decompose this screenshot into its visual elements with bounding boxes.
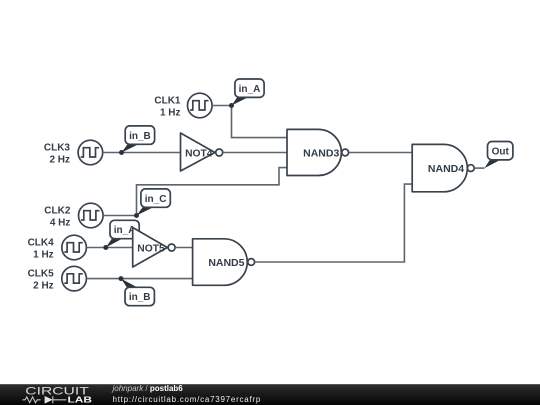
wire CLK2 to NAND3 input 3 (stepped) <box>103 168 287 216</box>
svg-text:CLK5: CLK5 <box>28 269 55 280</box>
svg-text:1 Hz: 1 Hz <box>160 108 181 119</box>
svg-text:NAND4: NAND4 <box>428 163 464 175</box>
wire NAND4 output to Out flag <box>474 167 484 169</box>
svg-text:johnpark / postlab6: johnpark / postlab6 <box>112 384 184 393</box>
NAND gate NAND5 <box>193 239 255 285</box>
label CLK4 1 Hz <box>28 238 55 261</box>
svg-text:in_C: in_C <box>145 194 167 205</box>
clock source CLK4 <box>62 235 87 260</box>
svg-text:CLK2: CLK2 <box>44 206 71 217</box>
junction dot node in_B bottom <box>119 276 124 281</box>
CircuitLab logo resistor and diode <box>23 396 67 403</box>
net flag in_B (top) <box>119 126 155 155</box>
wire CLK4 to NOT5 <box>86 247 132 249</box>
wire NAND5 output to NAND4 input 2 (stepped) <box>255 184 412 262</box>
net flag in_A (at CLK4) <box>106 220 139 247</box>
svg-text:LAB: LAB <box>68 396 93 405</box>
label CLK2 4 Hz <box>44 206 71 229</box>
svg-text:NAND3: NAND3 <box>303 147 339 159</box>
clock source CLK1 <box>188 93 213 118</box>
svg-text:in_A: in_A <box>239 84 261 95</box>
clock source CLK5 <box>62 266 87 291</box>
wire NAND3 output to NAND4 input 1 <box>349 152 412 154</box>
svg-text:NOT4: NOT4 <box>185 148 213 159</box>
footer bar <box>0 384 540 405</box>
junction dot node in_C <box>134 213 139 218</box>
wire CLK1 to junction A <box>212 105 231 107</box>
NOT gate NOT4 <box>181 133 223 171</box>
wire junction A down to NAND3 input 1 <box>232 106 288 138</box>
wire NOT5 output to NAND5 input 1 <box>175 247 192 249</box>
svg-text:in_B: in_B <box>129 292 151 303</box>
svg-text:CLK4: CLK4 <box>28 238 55 249</box>
svg-text:Out: Out <box>492 146 510 157</box>
net flag in_B (at CLK5) <box>121 279 154 306</box>
svg-text:2 Hz: 2 Hz <box>49 155 70 166</box>
label CLK1 1 Hz <box>154 96 181 119</box>
svg-text:4 Hz: 4 Hz <box>50 218 71 229</box>
junction dot node in_A bottom <box>103 245 108 250</box>
NAND gate NAND4 <box>412 144 474 191</box>
label CLK5 2 Hz <box>28 269 55 292</box>
svg-text:http://circuitlab.com/ca7397er: http://circuitlab.com/ca7397ercafrp <box>113 395 262 404</box>
svg-text:CLK1: CLK1 <box>154 96 181 107</box>
clock source CLK3 <box>78 140 103 165</box>
svg-text:NAND5: NAND5 <box>208 257 244 269</box>
NOT gate NOT5 <box>133 228 175 268</box>
wire CLK5 to NAND5 input 2 <box>86 278 192 280</box>
net flag in_C <box>137 189 171 216</box>
junction dot node in_A top <box>229 103 234 108</box>
clock source CLK2 <box>79 203 104 228</box>
label CLK3 2 Hz <box>44 143 71 166</box>
svg-text:NOT5: NOT5 <box>137 243 165 254</box>
wire CLK3 to NOT4 <box>103 152 181 154</box>
NAND gate NAND3 <box>287 129 349 175</box>
output flag Out <box>485 142 513 169</box>
svg-text:in_B: in_B <box>129 131 151 142</box>
svg-text:1 Hz: 1 Hz <box>33 250 54 261</box>
svg-text:CLK3: CLK3 <box>44 143 71 154</box>
net flag in_A (top) <box>232 79 265 106</box>
wire NOT4 output to NAND3 input 2 <box>223 152 287 154</box>
svg-text:2 Hz: 2 Hz <box>33 281 54 292</box>
